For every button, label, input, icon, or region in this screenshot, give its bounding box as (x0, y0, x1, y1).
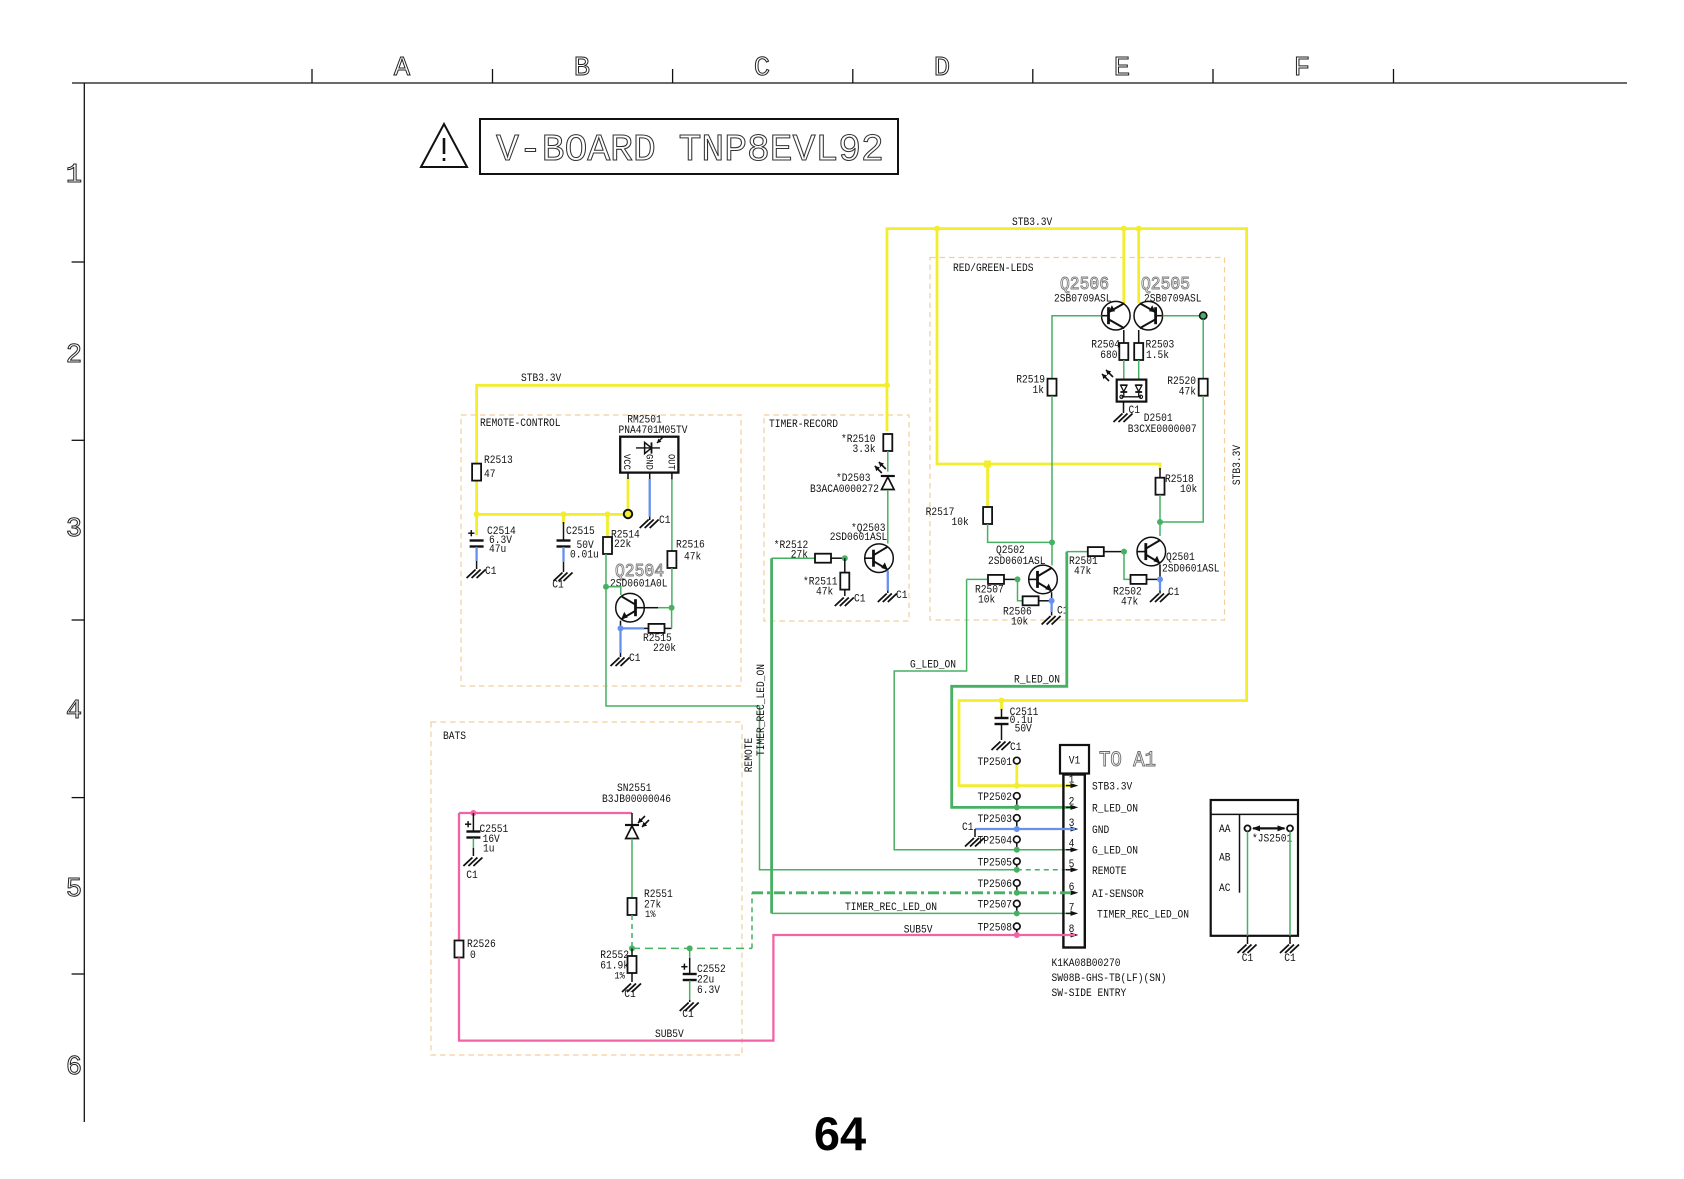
junction (1014, 890, 1020, 896)
svg-text:K1KA08B00270: K1KA08B00270 (1052, 958, 1121, 970)
svg-text:D: D (934, 54, 950, 84)
wire Q2504 emitter to ground blue (619, 628, 621, 653)
junction (884, 382, 890, 388)
test point TP2501 circle (1014, 757, 1021, 764)
svg-text:1%: 1% (645, 910, 656, 921)
svg-text:5: 5 (66, 875, 82, 905)
test point TP2506 circle (1014, 880, 1021, 887)
junction (669, 605, 675, 611)
transistor Q2506 symbol (1102, 301, 1131, 330)
pin arrow (1071, 890, 1079, 895)
C2515 upper lead (563, 522, 565, 541)
wire (886, 385, 889, 431)
lead (1051, 612, 1053, 616)
capacitor C2514 plates (468, 530, 483, 546)
lead (631, 948, 633, 956)
resistor R2552 body (628, 956, 637, 973)
jumper JS2501 (1245, 825, 1251, 831)
lead (844, 590, 846, 596)
svg-text:1%: 1% (614, 972, 625, 983)
wire (477, 481, 625, 514)
lead (671, 473, 673, 480)
transistor Q2502 symbol (1029, 565, 1058, 594)
border ruler top line (72, 82, 1627, 84)
wire (1052, 316, 1102, 379)
wire R2514 to Q2504 collector node (605, 554, 607, 587)
svg-text:47k: 47k (1074, 566, 1092, 578)
pin arrow (1071, 827, 1079, 832)
junction (687, 945, 693, 951)
resistor R2551 body (628, 898, 637, 915)
node open circle green (1200, 312, 1207, 319)
transistor Q2505 symbol (1134, 301, 1163, 330)
lead (1001, 709, 1003, 718)
wire (952, 552, 1075, 808)
wire (631, 915, 633, 948)
wire (606, 514, 609, 537)
lead (644, 607, 658, 609)
junction (561, 511, 567, 517)
capacitor C2511 plates (995, 718, 1009, 724)
wire R2517 to Q2502 collector node (988, 524, 1052, 542)
svg-text:C1: C1 (1242, 953, 1254, 965)
svg-text:A: A (394, 54, 411, 84)
title box (480, 119, 898, 174)
junction (1014, 867, 1020, 873)
svg-text:680: 680 (1100, 350, 1117, 362)
transistor Q2503 symbol (865, 544, 894, 573)
wire base node down to R2515 (671, 608, 673, 629)
wire (1015, 764, 1018, 786)
svg-text:SUB5V: SUB5V (655, 1029, 684, 1041)
wire R2520 to R2518 node (1160, 396, 1203, 522)
test point TP2504 circle (1014, 836, 1021, 843)
wire GND blue (649, 479, 651, 517)
lead (1016, 907, 1018, 913)
SN2551 to R2551 green (631, 839, 633, 899)
svg-text:1: 1 (66, 161, 82, 191)
wire (986, 464, 989, 507)
C2551 lower lead green (472, 838, 474, 848)
resistor R2513 body (472, 464, 481, 481)
JS2501 inner divider (1239, 814, 1241, 892)
lead (1289, 936, 1291, 944)
svg-text:10k: 10k (1011, 617, 1029, 629)
junction (629, 945, 635, 951)
ground C2511 (992, 742, 1011, 751)
svg-text:*JS2501: *JS2501 (1252, 834, 1293, 846)
wire (606, 587, 1017, 870)
svg-text:TIMER_REC_LED_ON: TIMER_REC_LED_ON (845, 902, 937, 914)
svg-text:3.3k: 3.3k (853, 444, 876, 456)
svg-text:B: B (574, 54, 590, 84)
RED/GREEN-LEDS block outline (930, 258, 1225, 621)
svg-text:6.3V: 6.3V (697, 985, 720, 997)
svg-text:47: 47 (484, 469, 496, 481)
junction (1136, 226, 1142, 232)
junction (1121, 226, 1127, 232)
svg-text:27k: 27k (791, 550, 809, 562)
lead (1159, 564, 1161, 579)
svg-text:TIMER_REC_LED_ON: TIMER_REC_LED_ON (1097, 909, 1189, 921)
lead (472, 848, 474, 856)
Q2505 collector lead (1138, 330, 1140, 343)
svg-text:Q2506: Q2506 (1060, 275, 1109, 295)
svg-text:E: E (1114, 54, 1130, 84)
wire (1018, 579, 1023, 600)
svg-text:2SB0709ASL: 2SB0709ASL (1054, 294, 1112, 306)
resistor R2501 body (1088, 547, 1104, 556)
lead (1016, 843, 1018, 850)
warning triangle (421, 124, 467, 167)
svg-text:10k: 10k (1180, 484, 1198, 496)
resistor *R2512 body (815, 554, 831, 563)
ground C2514 (467, 570, 486, 579)
test point TP2503 circle (1014, 815, 1021, 822)
top ruler ticks (311, 69, 313, 83)
resistor R2518 body (1156, 478, 1165, 495)
lead (649, 473, 651, 480)
lead (1123, 402, 1125, 413)
svg-text:47k: 47k (1121, 597, 1139, 609)
lead (1016, 865, 1018, 870)
junction (1014, 804, 1020, 810)
svg-text:C1: C1 (552, 580, 564, 592)
wire (1122, 229, 1125, 304)
lead (627, 473, 629, 479)
svg-text:B3ACA0000272: B3ACA0000272 (810, 484, 879, 496)
resistor *R2511 body (840, 573, 849, 590)
svg-text:0: 0 (470, 950, 476, 962)
svg-text:R2516: R2516 (676, 540, 705, 552)
border ruler left line (83, 83, 85, 1122)
junction (474, 511, 480, 517)
wire (1050, 601, 1052, 612)
ground JS2501 right (1280, 945, 1299, 954)
resistor R2504 body (1119, 343, 1128, 360)
C2514 lower lead blue (475, 547, 477, 561)
junction (1014, 783, 1020, 789)
wire (562, 514, 565, 524)
resistor R2520 body (1199, 379, 1208, 396)
resistor R2515 body (649, 624, 665, 633)
RM2501 internal IR diode (636, 437, 663, 454)
LED *D2503 (875, 462, 895, 490)
wire (751, 893, 753, 949)
svg-text:STB3.3V: STB3.3V (1092, 782, 1133, 794)
resistor R2526 body (455, 941, 464, 958)
svg-text:R2517: R2517 (926, 507, 955, 519)
svg-text:C1: C1 (1010, 742, 1022, 754)
svg-text:F: F (1294, 54, 1310, 84)
svg-text:AI-SENSOR: AI-SENSOR (1092, 889, 1144, 901)
svg-text:Q2505: Q2505 (1141, 275, 1190, 295)
lead (631, 813, 633, 825)
svg-text:C1: C1 (466, 870, 478, 882)
svg-text:SW-SIDE ENTRY: SW-SIDE ENTRY (1052, 988, 1127, 1000)
svg-text:4: 4 (66, 697, 82, 727)
wire (937, 229, 1160, 470)
svg-text:AA: AA (1219, 824, 1231, 836)
svg-text:C1: C1 (1284, 953, 1296, 965)
resistor R2517 body (983, 507, 992, 524)
C2552 lower lead (689, 981, 691, 1001)
wire (887, 571, 889, 591)
junction (1157, 519, 1163, 525)
test point TP2505 circle (1014, 858, 1021, 865)
wire (1289, 832, 1291, 936)
pin arrow (1071, 805, 1079, 810)
pin arrow (1071, 911, 1079, 916)
svg-text:22k: 22k (614, 539, 632, 551)
svg-text:Q2501: Q2501 (1166, 552, 1195, 564)
wire (1159, 579, 1161, 590)
lead (1159, 591, 1161, 594)
ground R2552 (622, 984, 641, 993)
junction (1014, 932, 1020, 938)
svg-text:1u: 1u (483, 844, 495, 856)
R2518 top lead (1159, 468, 1161, 478)
lead (1016, 887, 1018, 893)
pin arrow (1071, 847, 1079, 852)
svg-text:TP2507: TP2507 (978, 900, 1013, 912)
lead (644, 627, 649, 629)
test point TP2502 circle (1014, 793, 1021, 800)
svg-text:64: 64 (814, 1107, 866, 1160)
ground R2511 (835, 598, 854, 607)
lead (631, 973, 633, 982)
svg-text:STB3.3V: STB3.3V (1232, 445, 1244, 486)
node C2551 junction (470, 810, 476, 816)
ground C2552 (680, 1003, 699, 1012)
lead (476, 561, 478, 569)
connector V1 header box (1060, 745, 1089, 774)
svg-text:B3CXE0000007: B3CXE0000007 (1128, 424, 1197, 436)
R2503 to D2501 (1138, 360, 1140, 380)
wire (459, 812, 632, 814)
svg-text:G_LED_ON: G_LED_ON (1092, 846, 1138, 858)
junction (1014, 847, 1020, 853)
svg-text:220k: 220k (653, 643, 676, 655)
pin arrow (1071, 867, 1079, 872)
svg-text:TO A1: TO A1 (1099, 748, 1156, 773)
wire (1124, 552, 1131, 580)
wire D2503 to Q2503 collector (887, 490, 889, 544)
R2502 right lead (1147, 578, 1161, 580)
svg-text:SUB5V: SUB5V (904, 925, 933, 937)
wire (752, 891, 1075, 894)
test point TP2508 circle (1014, 923, 1021, 930)
svg-text:1.5k: 1.5k (1146, 350, 1169, 362)
ground C2515 (554, 573, 573, 582)
svg-text:TP2505: TP2505 (978, 857, 1013, 869)
photo sensor SN2551 symbol (625, 816, 649, 839)
wire (1163, 315, 1200, 317)
svg-text:TP2502: TP2502 (978, 792, 1013, 804)
R2504 to D2501 (1123, 360, 1125, 380)
svg-text:C1: C1 (659, 515, 671, 527)
svg-text:3: 3 (66, 515, 82, 545)
lead (1051, 592, 1053, 601)
svg-text:C1: C1 (629, 653, 641, 665)
junction (1014, 910, 1020, 916)
svg-text:C1: C1 (854, 594, 866, 606)
BATS block outline (431, 722, 742, 1055)
ground JS2501 left (1238, 945, 1257, 954)
R2518 to Q2501 collector (1159, 495, 1161, 536)
lead (844, 558, 846, 572)
svg-text:47u: 47u (489, 544, 506, 556)
svg-text:47k: 47k (1179, 387, 1197, 399)
wire (627, 477, 630, 511)
svg-text:50V: 50V (1015, 724, 1033, 736)
svg-text:TP2508: TP2508 (978, 922, 1013, 934)
svg-text:C1: C1 (1168, 587, 1180, 599)
svg-text:AB: AB (1219, 853, 1231, 865)
resistor R2514 body (603, 537, 612, 554)
capacitor C2551 plates (465, 821, 480, 837)
svg-text:47k: 47k (684, 552, 702, 564)
svg-text:2SD0601ASL: 2SD0601ASL (1162, 564, 1220, 576)
wire OUT to R2516 (671, 479, 673, 551)
resistor R2502 body (1131, 575, 1147, 584)
ground D2501 (1114, 414, 1133, 423)
svg-text:R_LED_ON: R_LED_ON (1014, 675, 1060, 687)
lead (1016, 822, 1018, 829)
svg-text:TP2506: TP2506 (978, 879, 1013, 891)
svg-text:2SD0601A0L: 2SD0601A0L (610, 579, 668, 591)
svg-text:2: 2 (66, 341, 82, 371)
junction (1121, 549, 1127, 555)
wire (887, 229, 1247, 786)
svg-text:C1: C1 (682, 1009, 694, 1021)
ground GND net (965, 838, 984, 847)
wire (975, 828, 1075, 830)
wire (894, 579, 1075, 849)
svg-text:GND: GND (642, 454, 653, 470)
svg-text:TP2503: TP2503 (978, 814, 1013, 826)
R2507 left lead green (967, 578, 988, 580)
transistor Q2504 symbol (616, 593, 645, 622)
svg-text:GND: GND (1092, 825, 1110, 837)
svg-text:OUT: OUT (665, 454, 676, 470)
svg-text:REMOTE: REMOTE (744, 737, 756, 772)
svg-text:C1: C1 (624, 989, 636, 1001)
lead (1001, 724, 1003, 740)
junction (934, 226, 940, 232)
left ruler ticks (72, 261, 85, 263)
svg-text:C1: C1 (485, 566, 497, 578)
pin arrow (1071, 783, 1079, 788)
ground RM2501 GND (640, 520, 659, 529)
ground Q2504 emitter (611, 658, 630, 667)
svg-text:REMOTE-CONTROL: REMOTE-CONTROL (480, 418, 561, 430)
svg-text:C: C (754, 54, 770, 84)
capacitor C2515 plates (557, 541, 571, 547)
svg-text:REMOTE: REMOTE (1092, 866, 1127, 878)
junction (1049, 539, 1055, 545)
TIMER-RECORD block outline (764, 415, 909, 621)
junction (618, 625, 624, 631)
svg-text:PNA4701M05TV: PNA4701M05TV (619, 425, 688, 437)
wire (459, 935, 1075, 1041)
resistor *R2510 body (883, 434, 892, 451)
wire (606, 587, 621, 595)
wire (689, 948, 691, 958)
wire (1000, 701, 1003, 711)
wire (770, 558, 773, 913)
R2512 right lead (831, 557, 845, 559)
ground C2551 (463, 858, 482, 867)
svg-text:C1: C1 (962, 822, 974, 834)
wire (477, 385, 887, 463)
svg-text:C1: C1 (896, 590, 908, 602)
junction (999, 698, 1005, 704)
wire (772, 912, 1075, 914)
svg-text:0.01u: 0.01u (570, 550, 599, 562)
svg-text:47k: 47k (816, 587, 834, 599)
R2515 right lead (665, 627, 672, 629)
svg-text:V1: V1 (1069, 756, 1081, 768)
svg-text:TIMER-RECORD: TIMER-RECORD (769, 419, 838, 431)
Q2502 collector stub (1051, 542, 1053, 565)
wire (475, 514, 478, 535)
ground Q2503 emitter (878, 594, 897, 603)
wire (1247, 832, 1249, 936)
JS2501 header line (1211, 813, 1298, 815)
svg-text:VCC: VCC (620, 454, 631, 470)
svg-text:C1: C1 (1129, 405, 1141, 417)
svg-text:STB3.3V: STB3.3V (1012, 217, 1053, 229)
svg-text:C2515: C2515 (566, 526, 595, 538)
junction (1014, 826, 1020, 832)
junction (603, 584, 609, 590)
R2510 lower lead (887, 451, 889, 472)
resistor R2507 body (988, 575, 1004, 584)
wire (1017, 869, 1075, 871)
svg-text:2SB0709ASL: 2SB0709ASL (1144, 294, 1202, 306)
wire (1137, 229, 1140, 304)
lead (887, 591, 889, 593)
Q2506 collector lead (1123, 330, 1125, 343)
resistor R2519 body (1048, 379, 1057, 396)
svg-text:R_LED_ON: R_LED_ON (1092, 803, 1138, 815)
lead (1016, 800, 1018, 808)
svg-text:AC: AC (1219, 883, 1231, 895)
R2507 right lead (1004, 578, 1018, 580)
lead (689, 1000, 691, 1002)
connector body K1KA08B00270 (1063, 775, 1084, 948)
transistor Q2501 symbol (1137, 537, 1166, 566)
junction (1015, 576, 1021, 582)
GND stub (974, 829, 976, 837)
wire (658, 607, 672, 609)
lead (620, 621, 622, 629)
svg-text:10k: 10k (978, 595, 996, 607)
svg-text:1k: 1k (1033, 385, 1045, 397)
R2506 right lead (1039, 600, 1052, 602)
svg-text:TP2501: TP2501 (978, 757, 1013, 769)
lead (1247, 936, 1249, 944)
junction (842, 555, 848, 561)
svg-text:G_LED_ON: G_LED_ON (910, 660, 956, 672)
svg-text:6: 6 (66, 1053, 82, 1083)
node Q2501 emitter junction (1157, 576, 1163, 582)
lead (1016, 930, 1018, 935)
svg-text:SW08B-GHS-TB(LF)(SN): SW08B-GHS-TB(LF)(SN) (1052, 973, 1167, 985)
lead (620, 653, 622, 657)
lead (472, 813, 474, 831)
